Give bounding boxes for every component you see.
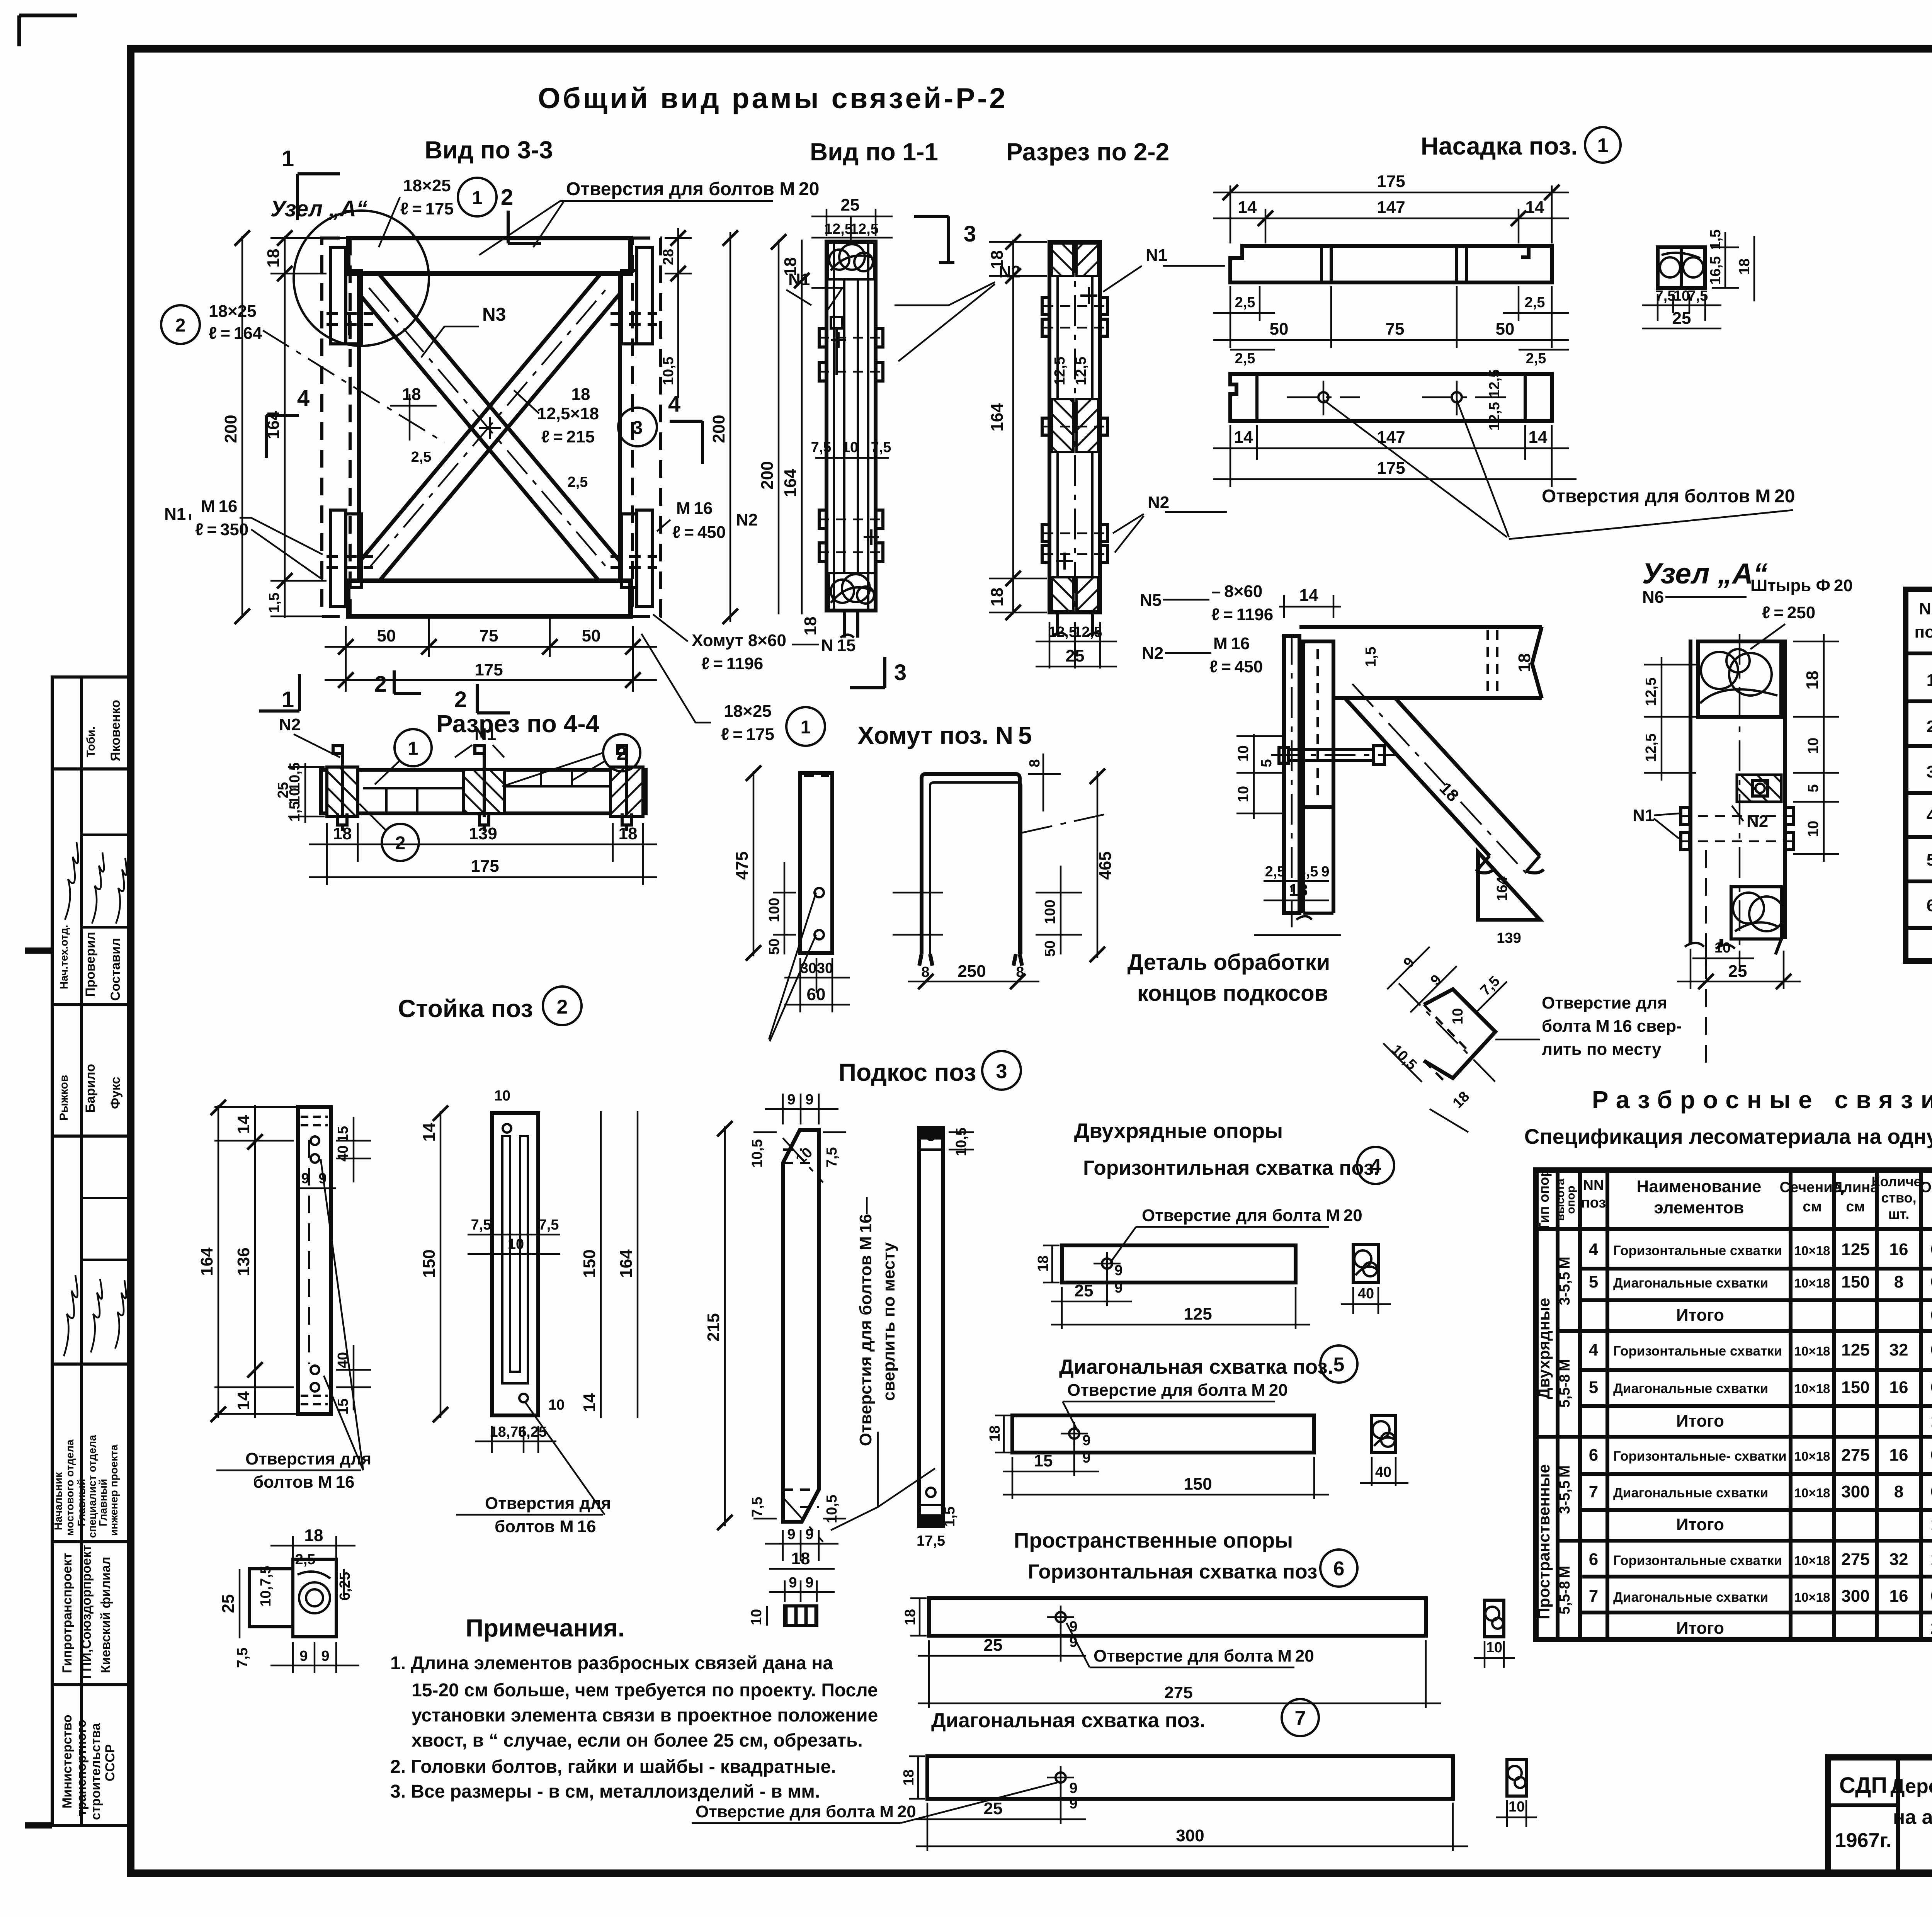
svg-text:9: 9 [1114, 1280, 1122, 1296]
svg-text:1: 1 [472, 188, 483, 208]
svg-text:2: 2 [395, 833, 406, 854]
svg-text:Итого: Итого [1676, 1306, 1724, 1325]
dims around beam2 [1213, 350, 1577, 487]
leg stubs below column [840, 611, 858, 638]
svg-text:ℓ = 164: ℓ = 164 [209, 324, 262, 343]
svg-text:18: 18 [1736, 259, 1753, 275]
middle hatched post [464, 770, 505, 813]
corner clamp top-left [327, 247, 373, 344]
svg-text:Киевский филиал: Киевский филиал [99, 1557, 113, 1673]
svg-text:– 8×60: – 8×60 [1211, 582, 1262, 601]
section mark 2 top [508, 211, 541, 243]
svg-text:1: 1 [1927, 671, 1932, 690]
svg-text:18: 18 [304, 1526, 323, 1545]
svg-text:сверлить по месту: сверлить по месту [879, 1242, 898, 1401]
svg-text:ℓ = 450: ℓ = 450 [672, 523, 726, 542]
svg-text:Итого: Итого [1676, 1515, 1724, 1534]
svg-text:9: 9 [789, 1575, 797, 1591]
X brace 1 [359, 274, 620, 581]
svg-text:концов подкосов: концов подкосов [1137, 981, 1328, 1006]
svg-text:1. Длина элементов разбросн: 1. Длина элементов разбросных связей дан… [390, 1653, 833, 1674]
svg-text:7,5: 7,5 [235, 1648, 251, 1668]
svg-text:1,15: 1,15 [1930, 1412, 1932, 1431]
svg-text:9: 9 [787, 1526, 795, 1543]
svg-text:см: см [1803, 1199, 1821, 1215]
svg-text:Фукс: Фукс [108, 1077, 123, 1109]
svg-text:ℓ = 1196: ℓ = 1196 [701, 654, 763, 673]
svg-text:7: 7 [1295, 1707, 1306, 1730]
brace centerlines dash-dot [369, 284, 611, 568]
svg-text:10×18: 10×18 [1794, 1344, 1830, 1358]
svg-text:25: 25 [1075, 1281, 1094, 1300]
svg-text:2. Головки болтов, гайки и: 2. Головки болтов, гайки и шайбы - квадр… [390, 1757, 836, 1777]
left hatched post [327, 767, 358, 816]
svg-text:14: 14 [234, 1115, 253, 1134]
clamp bolts upper [819, 317, 883, 381]
top hatch block [1052, 243, 1073, 276]
svg-text:25: 25 [984, 1799, 1003, 1818]
section mark 1 top [298, 174, 340, 220]
svg-text:40: 40 [1358, 1286, 1374, 1302]
svg-text:Отверстия для болтов М 20: Отверстия для болтов М 20 [566, 179, 819, 199]
svg-text:ℓ = 350: ℓ = 350 [195, 520, 248, 539]
svg-text:3-5,5 М: 3-5,5 М [1557, 1465, 1573, 1514]
mid side dims 18 / 2,5 [390, 394, 437, 441]
svg-text:N 15: N 15 [821, 636, 856, 655]
svg-text:Тип опор: Тип опор [1536, 1169, 1552, 1231]
section mark 2 bottom [477, 684, 510, 713]
svg-text:7,5: 7,5 [539, 1217, 559, 1233]
svg-text:9: 9 [1400, 954, 1418, 971]
svg-text:50: 50 [766, 939, 782, 955]
svg-text:Горизонтальные схватки: Горизонтальные схватки [1613, 1553, 1782, 1568]
svg-text:7,5: 7,5 [1477, 973, 1503, 999]
svg-text:6: 6 [1589, 1550, 1598, 1569]
svg-text:2,5: 2,5 [568, 474, 588, 490]
svg-text:16: 16 [1889, 1587, 1908, 1606]
svg-text:опор: опор [1565, 1186, 1577, 1214]
svg-text:12,5: 12,5 [1048, 624, 1077, 640]
diagonal braces [1345, 698, 1540, 856]
left bar dims [746, 765, 796, 961]
square section [1658, 247, 1705, 288]
center cross [479, 417, 501, 439]
svg-text:2,5: 2,5 [295, 1551, 316, 1568]
svg-text:2: 2 [454, 687, 467, 712]
svg-text:1,5: 1,5 [942, 1507, 958, 1527]
corner clamp top-right [611, 247, 657, 344]
bottom 250 [908, 974, 1039, 989]
svg-text:N2: N2 [1142, 644, 1163, 663]
svg-text:Узел „А“: Узел „А“ [270, 196, 367, 221]
svg-text:9: 9 [805, 1526, 813, 1543]
svg-text:Отверстия для: Отверстия для [245, 1449, 371, 1468]
right side small dims [665, 228, 692, 398]
left bar with bevel [783, 1130, 819, 1522]
svg-text:Итого: Итого [1676, 1412, 1724, 1431]
svg-text:175: 175 [474, 660, 503, 679]
svg-text:16: 16 [1889, 1240, 1908, 1259]
svg-text:136: 136 [234, 1247, 253, 1276]
svg-text:Подкос поз: Подкос поз [838, 1058, 976, 1086]
svg-text:5: 5 [1927, 850, 1932, 869]
svg-text:15-20 см больше, чем требует: 15-20 см больше, чем требуется по проект… [412, 1680, 878, 1701]
svg-text:2,5: 2,5 [1235, 350, 1255, 367]
leaders to holes [769, 893, 816, 1041]
svg-text:поз: поз [1581, 1195, 1606, 1211]
svg-text:Общий вид рамы связей-Р-2: Общий вид рамы связей-Р-2 [538, 82, 1008, 114]
page corner mark top-left [19, 15, 77, 46]
svg-text:8: 8 [921, 964, 929, 980]
svg-text:7,5: 7,5 [811, 439, 832, 456]
svg-text:10: 10 [793, 1145, 816, 1168]
svg-text:7,5: 7,5 [1655, 288, 1676, 304]
svg-text:9: 9 [787, 1092, 795, 1108]
svg-text:12,5: 12,5 [1643, 733, 1659, 762]
svg-text:2: 2 [617, 743, 627, 764]
svg-text:18×25: 18×25 [724, 702, 772, 721]
svg-text:50: 50 [377, 626, 396, 645]
svg-text:Горизонтальные схватки: Горизонтальные схватки [1613, 1344, 1782, 1359]
stamp strip column divider [80, 677, 83, 1825]
svg-text:Отверстия для болтов М 20: Отверстия для болтов М 20 [1542, 486, 1795, 507]
svg-text:14: 14 [234, 1391, 253, 1410]
small cross-section [249, 1559, 336, 1637]
svg-text:15: 15 [1034, 1451, 1053, 1470]
svg-text:7,5: 7,5 [824, 1147, 840, 1168]
leader to holes [1323, 400, 1509, 537]
beam top view [1230, 246, 1552, 282]
svg-text:Наименование: Наименование [1637, 1177, 1762, 1196]
bottom beam [348, 581, 631, 616]
rotated square detail [1424, 989, 1495, 1078]
svg-text:9: 9 [805, 1575, 813, 1591]
svg-text:лить по месту: лить по месту [1542, 1040, 1662, 1059]
svg-text:9: 9 [1069, 1796, 1077, 1812]
svg-text:Пространственные: Пространственные [1535, 1464, 1553, 1619]
post continues [1301, 807, 1305, 913]
svg-text:10: 10 [1235, 786, 1252, 802]
svg-text:Объем,: Объем, [1920, 1179, 1932, 1196]
plus marks [1080, 287, 1097, 304]
svg-text:Вид по 1-1: Вид по 1-1 [810, 138, 938, 166]
svg-text:Главный: Главный [97, 1479, 109, 1526]
svg-text:1: 1 [408, 738, 418, 759]
bolt block [1737, 775, 1781, 802]
svg-text:Составил: Составил [108, 938, 123, 1001]
svg-text:18: 18 [781, 257, 800, 276]
svg-text:0,58: 0,58 [1930, 1306, 1932, 1325]
svg-text:12,5: 12,5 [1643, 677, 1659, 706]
svg-text:4: 4 [1589, 1240, 1599, 1259]
svg-text:Двухрядные опоры: Двухрядные опоры [1074, 1119, 1283, 1143]
section pos5 [1372, 1415, 1396, 1453]
svg-text:150: 150 [420, 1249, 439, 1277]
svg-text:147: 147 [1377, 198, 1405, 217]
svg-text:болта М 16 свер-: болта М 16 свер- [1542, 1017, 1682, 1036]
svg-text:5: 5 [1589, 1272, 1598, 1291]
svg-text:Горизонтальная схватка поз: Горизонтальная схватка поз [1028, 1560, 1317, 1583]
svg-text:4: 4 [1370, 1155, 1381, 1177]
svg-text:15: 15 [335, 1126, 351, 1142]
svg-text:Отверстия для болтов М 16—: Отверстия для болтов М 16— [856, 1197, 875, 1446]
svg-text:25: 25 [1672, 309, 1691, 328]
section mark 4 right [670, 421, 702, 464]
section pos6 [1485, 1600, 1504, 1637]
svg-text:12,5×18: 12,5×18 [537, 404, 599, 423]
svg-text:ГПИ,Союздорпроект: ГПИ,Союздорпроект [79, 1545, 94, 1679]
stamp strip horizontal dividers [52, 767, 131, 771]
svg-text:475: 475 [733, 851, 752, 879]
svg-text:Стойка поз: Стойка поз [398, 995, 533, 1022]
svg-text:16: 16 [1889, 1378, 1908, 1397]
svg-text:СДП: СДП [1839, 1773, 1887, 1798]
dims right of section [1793, 634, 1839, 862]
svg-text:12,5: 12,5 [1052, 357, 1068, 385]
svg-text:0,36: 0,36 [1930, 1240, 1932, 1259]
right bar [919, 1128, 943, 1526]
svg-text:Деревянные мосты: Деревянные мосты [1890, 1775, 1932, 1798]
svg-text:0,79: 0,79 [1930, 1446, 1932, 1465]
svg-text:14: 14 [1238, 198, 1257, 217]
svg-text:Штырь Ф 20: Штырь Ф 20 [1750, 576, 1853, 595]
svg-text:18: 18 [402, 385, 421, 404]
svg-text:см: см [1846, 1199, 1865, 1215]
svg-text:10: 10 [1509, 1799, 1525, 1815]
svg-text:100: 100 [766, 898, 782, 922]
svg-text:на автомобильных: на автомобильных [1893, 1806, 1932, 1829]
svg-text:25: 25 [984, 1636, 1003, 1655]
svg-text:164: 164 [197, 1247, 216, 1276]
svg-text:10: 10 [748, 1609, 765, 1625]
svg-text:6: 6 [1589, 1446, 1598, 1465]
bottom dims of left bar [784, 958, 850, 1012]
svg-text:Разбросные связи: Разбросные связи [1592, 1086, 1932, 1114]
svg-text:1: 1 [282, 146, 294, 171]
svg-text:Вид по 3-3: Вид по 3-3 [425, 136, 553, 164]
svg-text:1,5: 1,5 [287, 801, 303, 822]
svg-text:поз.: поз. [1915, 623, 1932, 641]
svg-text:7: 7 [1589, 1482, 1598, 1501]
svg-text:5,5-8 М: 5,5-8 М [1557, 1566, 1573, 1614]
svg-text:3-5,5 М: 3-5,5 М [1557, 1257, 1573, 1305]
svg-text:18: 18 [571, 385, 590, 404]
svg-text:200: 200 [221, 415, 240, 443]
svg-text:Диагональная схватка поз.: Диагональная схватка поз. [1059, 1356, 1333, 1378]
svg-text:10: 10 [508, 1236, 524, 1252]
brace break marks [1476, 856, 1544, 873]
dim line left outer 200 [235, 230, 250, 624]
svg-text:Разрез по 2-2: Разрез по 2-2 [1006, 138, 1169, 166]
svg-text:Разрез по 4-4: Разрез по 4-4 [436, 710, 600, 738]
svg-text:Отверстие для болта М 20: Отверстие для болта М 20 [1067, 1381, 1288, 1400]
svg-text:150: 150 [580, 1249, 599, 1277]
legs down [1689, 939, 1692, 943]
svg-text:4: 4 [1927, 806, 1932, 825]
label (2) 18x25 l=164 left [161, 305, 200, 344]
svg-text:Барило: Барило [83, 1064, 98, 1113]
dim line left inner [270, 230, 354, 618]
corner clamp bottom-left [327, 510, 373, 607]
svg-text:10: 10 [842, 439, 858, 456]
svg-text:10: 10 [548, 1397, 565, 1413]
svg-text:12,5: 12,5 [1073, 357, 1089, 385]
svg-text:Пространственные опоры: Пространственные опоры [1014, 1528, 1293, 1552]
svg-text:10: 10 [1486, 1640, 1502, 1656]
svg-text:18: 18 [1289, 881, 1308, 900]
svg-text:25: 25 [1066, 646, 1085, 665]
bolts [1042, 298, 1107, 563]
svg-text:3: 3 [1927, 762, 1932, 781]
svg-text:25: 25 [1728, 962, 1747, 981]
svg-text:14: 14 [580, 1393, 599, 1412]
left stamp strip outer box [52, 677, 131, 1825]
svg-text:5: 5 [1333, 1354, 1345, 1376]
svg-text:18: 18 [264, 249, 283, 268]
svg-text:1,5: 1,5 [266, 593, 282, 613]
svg-text:ℓ = 175: ℓ = 175 [721, 725, 774, 744]
svg-text:14: 14 [1234, 428, 1253, 447]
svg-text:3: 3 [964, 221, 976, 247]
svg-text:18×25: 18×25 [403, 176, 451, 195]
right tall dims 200/164 [723, 230, 738, 624]
svg-text:2,5: 2,5 [1265, 864, 1286, 880]
svg-text:139: 139 [1497, 930, 1521, 946]
svg-text:18: 18 [791, 1549, 810, 1568]
svg-text:18: 18 [801, 617, 820, 636]
svg-text:N2: N2 [1747, 812, 1768, 831]
section mark 4 left [266, 415, 299, 458]
svg-text:1: 1 [801, 717, 811, 738]
svg-text:5,5-8 М: 5,5-8 М [1557, 1359, 1573, 1408]
svg-text:300: 300 [1841, 1587, 1869, 1606]
svg-text:32: 32 [1889, 1340, 1908, 1359]
beam pos4 [1062, 1245, 1296, 1283]
svg-text:18: 18 [1515, 653, 1534, 672]
svg-text:Проверил: Проверил [83, 932, 98, 997]
svg-text:164: 164 [617, 1249, 636, 1278]
dims left of section [1644, 657, 1696, 781]
svg-text:9: 9 [301, 1170, 309, 1187]
bolt through [1279, 746, 1384, 764]
svg-text:N2: N2 [279, 715, 301, 734]
svg-text:9: 9 [805, 1092, 813, 1108]
svg-text:хвост, в “ случае, если он: хвост, в “ случае, если он более 25 см, … [412, 1730, 863, 1751]
svg-text:Отверстие для болта М 20: Отверстие для болта М 20 [1142, 1206, 1362, 1225]
svg-text:5: 5 [1589, 1378, 1598, 1397]
svg-text:50: 50 [1496, 320, 1515, 338]
bottom dims [1036, 622, 1117, 668]
svg-text:10: 10 [1450, 1008, 1466, 1024]
svg-text:N2: N2 [1148, 493, 1169, 512]
svg-text:9: 9 [299, 1648, 308, 1664]
svg-text:18: 18 [1035, 1255, 1051, 1272]
8x60 leader [1022, 813, 1109, 833]
right: section [1690, 640, 1785, 939]
svg-text:16,5: 16,5 [1708, 256, 1724, 285]
svg-text:Тоби.: Тоби. [85, 726, 97, 757]
svg-text:50: 50 [1042, 941, 1058, 957]
svg-text:12,5 12,5: 12,5 12,5 [1486, 369, 1503, 430]
svg-text:М 16: М 16 [201, 497, 237, 516]
svg-text:10×18: 10×18 [1794, 1449, 1830, 1463]
svg-text:мостового отдела: мостового отдела [64, 1439, 76, 1536]
svg-text:175: 175 [471, 857, 499, 876]
svg-text:4: 4 [668, 391, 680, 417]
svg-text:18: 18 [902, 1609, 918, 1625]
svg-text:3. Все размеры - в см, ме: 3. Все размеры - в см, металлоизделий - … [390, 1781, 820, 1802]
svg-text:300: 300 [1176, 1826, 1204, 1845]
svg-text:NN: NN [1583, 1177, 1604, 1194]
bottom hatch block [1052, 577, 1073, 611]
beam pos6 [929, 1598, 1426, 1636]
mid dims 7,5 10 7,5 [815, 457, 889, 459]
svg-text:7: 7 [1589, 1587, 1598, 1606]
svg-text:Диагональная схватка поз.: Диагональная схватка поз. [931, 1709, 1206, 1732]
svg-text:ℓ = 250: ℓ = 250 [1762, 603, 1815, 622]
U channel dims [893, 754, 1105, 962]
right stand (dashed) [633, 238, 661, 617]
svg-text:6: 6 [1333, 1558, 1345, 1580]
column body [827, 242, 876, 611]
dims top [753, 1094, 846, 1132]
svg-text:150: 150 [1841, 1378, 1869, 1397]
svg-text:Отверстие для болта М 20: Отверстие для болта М 20 [696, 1802, 916, 1821]
svg-text:2,5: 2,5 [1526, 350, 1546, 367]
svg-text:150: 150 [1184, 1475, 1212, 1493]
svg-text:N1: N1 [1146, 246, 1167, 265]
svg-text:10: 10 [1235, 745, 1252, 762]
left: post bars [1284, 636, 1299, 913]
svg-text:250: 250 [957, 962, 986, 981]
svg-text:Главный: Главный [75, 1479, 87, 1526]
svg-text:125: 125 [1841, 1340, 1869, 1359]
svg-text:18: 18 [619, 824, 638, 843]
svg-text:18: 18 [333, 824, 352, 843]
top beam [348, 238, 631, 274]
right hatched post [611, 767, 643, 816]
bottom dims of left part [1254, 881, 1341, 935]
svg-text:18×25: 18×25 [209, 302, 257, 321]
svg-text:1,5: 1,5 [1363, 647, 1379, 667]
section mark 2 top [394, 670, 421, 694]
svg-text:10,7,5: 10,7,5 [258, 1566, 274, 1607]
svg-text:СССР: СССР [103, 1744, 117, 1781]
svg-text:10: 10 [494, 1088, 510, 1104]
dims [433, 1106, 638, 1422]
svg-text:Горизонтальные- схватки: Горизонтальные- схватки [1613, 1449, 1787, 1464]
svg-text:2: 2 [557, 996, 568, 1018]
clamp bolts lower [819, 510, 883, 561]
leg stubs below column [1053, 612, 1101, 636]
svg-text:10×18: 10×18 [1794, 1276, 1830, 1290]
svg-text:50: 50 [582, 626, 601, 645]
svg-text:14: 14 [420, 1123, 439, 1141]
dims left [1236, 595, 1341, 819]
svg-text:2,44: 2,44 [1930, 1619, 1932, 1638]
section mark 3 top right [914, 216, 954, 263]
svg-text:N2: N2 [736, 510, 758, 529]
front bar [492, 1113, 538, 1415]
svg-text:164: 164 [988, 403, 1007, 432]
svg-text:Насадка поз.: Насадка поз. [1421, 132, 1578, 160]
svg-text:2: 2 [501, 185, 513, 210]
svg-text:150: 150 [1841, 1272, 1869, 1291]
svg-text:10,5: 10,5 [824, 1495, 840, 1523]
svg-text:10×18: 10×18 [1794, 1486, 1830, 1500]
svg-text:9: 9 [1082, 1432, 1090, 1449]
svg-text:3: 3 [894, 660, 906, 685]
